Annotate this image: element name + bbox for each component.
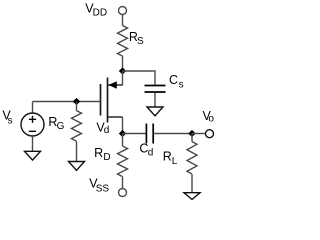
wire Vo node to RL xyxy=(191,134,193,142)
svg-text:o: o xyxy=(208,114,214,125)
terminal VDD xyxy=(119,7,127,15)
svg-text:D: D xyxy=(103,152,110,163)
wire drain down to Vd node xyxy=(122,117,124,134)
channel line xyxy=(107,78,109,123)
node source junction xyxy=(119,67,126,74)
label Cs xyxy=(169,73,184,90)
wire Cs to ground xyxy=(154,93,156,107)
svg-text:DD: DD xyxy=(93,7,107,18)
svg-text:C: C xyxy=(169,73,178,87)
ground below RG xyxy=(69,162,85,171)
wire node to Cs xyxy=(123,71,156,85)
svg-text:R: R xyxy=(94,146,103,160)
wire Vd node to RD xyxy=(122,134,124,147)
ground below Vs xyxy=(25,151,41,160)
svg-text:d: d xyxy=(104,125,110,136)
wire Vs to ground xyxy=(32,136,34,151)
node Vd junction xyxy=(119,130,126,137)
source arrow xyxy=(108,81,117,89)
wire Vd node to Cd xyxy=(123,133,147,135)
gate line xyxy=(100,84,102,116)
label RL xyxy=(163,149,178,167)
resistor RD xyxy=(118,146,128,177)
svg-text:R: R xyxy=(163,149,172,163)
label Vo xyxy=(203,109,215,124)
source Vs xyxy=(21,113,44,136)
svg-text:G: G xyxy=(57,121,65,132)
wire RS to node xyxy=(122,56,124,71)
wire RG to ground xyxy=(76,141,78,161)
label Vs xyxy=(2,108,12,126)
label RG xyxy=(48,115,64,132)
svg-text:s: s xyxy=(8,115,13,126)
resistor RG xyxy=(72,111,82,142)
label Vd xyxy=(96,121,109,136)
source lead xyxy=(108,84,123,86)
gate wire xyxy=(33,101,101,103)
terminal Vo xyxy=(206,130,214,138)
wire Cd to Vo node xyxy=(153,133,192,135)
terminal VSS xyxy=(119,189,127,197)
ground below RL xyxy=(184,193,200,200)
resistor RS xyxy=(118,26,128,57)
wire VDD to RS xyxy=(122,15,124,26)
wire RL to ground xyxy=(191,174,193,193)
label VDD xyxy=(85,1,107,18)
label RS xyxy=(129,30,144,47)
svg-text:S: S xyxy=(137,36,144,47)
svg-text:L: L xyxy=(172,156,178,167)
transistor M1 (PMOS) xyxy=(101,78,123,123)
label RD xyxy=(94,146,111,163)
label VSS xyxy=(89,176,109,194)
label Cd xyxy=(139,141,153,158)
capacitor Cs xyxy=(145,86,166,93)
wire RD to VSS terminal xyxy=(122,177,124,189)
node gate junction xyxy=(73,98,80,105)
svg-text:s: s xyxy=(179,79,184,90)
capacitor Cd xyxy=(146,124,153,144)
drain lead xyxy=(108,116,123,118)
svg-text:d: d xyxy=(148,147,154,158)
ground below Cs xyxy=(147,107,163,116)
wire node to transistor source xyxy=(122,71,124,85)
resistor RL xyxy=(187,142,197,174)
svg-text:SS: SS xyxy=(96,183,110,194)
wire node to Vo terminal xyxy=(192,133,206,135)
node Vo junction xyxy=(188,130,195,137)
wire junction to RG xyxy=(76,102,78,111)
wire Vs to gate wire xyxy=(32,102,34,114)
